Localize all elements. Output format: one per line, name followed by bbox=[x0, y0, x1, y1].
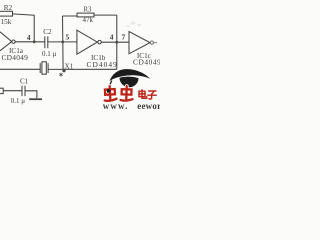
svg-text:eeworm.com: eeworm.com bbox=[137, 101, 160, 110]
node C junction dot bbox=[115, 41, 118, 44]
svg-text:15k: 15k bbox=[1, 18, 12, 26]
svg-text:0.1 μ: 0.1 μ bbox=[11, 97, 26, 105]
svg-text:CD4049: CD4049 bbox=[2, 53, 29, 62]
wire vertical R3 right leg down through node C to feedback line bbox=[116, 15, 118, 69]
wire C1 to ground bbox=[25, 91, 37, 98]
svg-text:4: 4 bbox=[27, 33, 31, 42]
svg-text:R3: R3 bbox=[84, 6, 93, 13]
watermark text 电子 (red) bbox=[139, 90, 156, 99]
svg-text:www.: www. bbox=[103, 101, 129, 110]
svg-text:C2: C2 bbox=[43, 28, 52, 36]
svg-text:5: 5 bbox=[66, 32, 70, 41]
svg-text:47k: 47k bbox=[83, 16, 94, 24]
wire R2 output to node A bbox=[13, 14, 35, 42]
op-amp U2 IC1b inverter bbox=[77, 30, 118, 69]
terminal stub bbox=[0, 88, 3, 93]
svg-text:CD4049: CD4049 bbox=[87, 60, 118, 69]
svg-text:C1: C1 bbox=[20, 77, 29, 85]
svg-text:R2: R2 bbox=[4, 4, 13, 12]
node B junction dot bbox=[61, 41, 64, 44]
crystal X1 bbox=[40, 62, 73, 77]
node D junction dot bbox=[62, 69, 65, 72]
svg-text:4: 4 bbox=[110, 33, 114, 42]
svg-text:CD4049: CD4049 bbox=[133, 58, 160, 67]
svg-text:0.1 μ: 0.1 μ bbox=[42, 50, 57, 58]
watermark graduation cap logo bbox=[107, 69, 150, 94]
node A junction dot bbox=[33, 40, 36, 43]
wire C2 to IC1b input bbox=[48, 41, 77, 43]
wire IC1b output to IC1c input bbox=[101, 41, 129, 43]
op-amp U1 IC1a inverter bbox=[0, 32, 28, 62]
capacitor C1 bbox=[11, 77, 29, 105]
wire feedback line right segment bbox=[48, 68, 117, 70]
wire terminal to C1 bbox=[3, 90, 22, 92]
capacitor C2 bbox=[42, 28, 57, 58]
watermark text 虫虫 (red) bbox=[104, 86, 133, 101]
ground bbox=[29, 98, 42, 100]
wire vertical R3 left leg down to feedback line bbox=[62, 16, 65, 69]
resistor R2 bbox=[0, 4, 13, 26]
svg-text:7: 7 bbox=[122, 32, 126, 41]
resistor R3 bbox=[63, 6, 117, 24]
op-amp U3 IC1c inverter bbox=[129, 32, 161, 67]
watermark tassel ball bbox=[107, 89, 111, 93]
wire feedback line left segment to IC1a input bbox=[0, 68, 40, 70]
wire IC1a output to C2 bbox=[15, 41, 44, 43]
scan speckles (noise) bbox=[127, 21, 142, 27]
